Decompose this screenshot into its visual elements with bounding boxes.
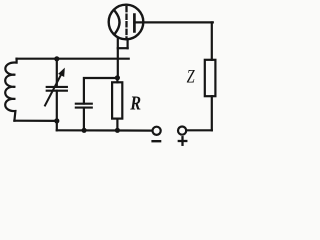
variable capacitor bottom lead down to bus bbox=[56, 91, 58, 131]
minus sign bbox=[153, 140, 161, 142]
wire: bottom bus bbox=[57, 129, 153, 132]
grid capacitor plates bbox=[76, 103, 92, 105]
variable capacitor C1: top lead bbox=[56, 59, 58, 87]
positive terminal bbox=[178, 127, 186, 135]
plus sign bbox=[179, 137, 187, 145]
impedance Z body bbox=[205, 60, 216, 96]
node: tank bottom / variable capacitor junction dot bbox=[54, 118, 59, 123]
triode tube V1 envelope bbox=[109, 5, 144, 40]
wire: grid-cathode bridge bbox=[118, 47, 128, 49]
wire: node to grid capacitor top bbox=[84, 78, 118, 104]
wire: grid capacitor bottom lead bbox=[83, 108, 85, 131]
wire: node to R top bbox=[116, 78, 118, 83]
node: tank top / variable capacitor junction dot bbox=[54, 56, 59, 61]
wire: cathode lead down from tube bbox=[117, 38, 119, 78]
variable capacitor arrow bbox=[45, 68, 65, 106]
wire: Z bottom down bbox=[211, 96, 213, 130]
variable capacitor plates bbox=[47, 86, 67, 88]
anode bar of V1 bbox=[133, 15, 136, 32]
svg-text:R: R bbox=[129, 93, 141, 115]
cathode arc of V1 bbox=[115, 12, 119, 34]
node: grid node junction dot bbox=[115, 75, 120, 80]
svg-text:Z: Z bbox=[187, 68, 196, 88]
wire: bottom right horizontal to plus terminal bbox=[186, 129, 212, 131]
wire: tank top bbox=[17, 58, 129, 60]
wire: right branch down to Z bbox=[211, 22, 213, 59]
wire: grid lead stub bbox=[126, 40, 128, 48]
resistor R body bbox=[112, 82, 122, 118]
node: capacitor bottom junction dot bbox=[82, 128, 87, 133]
grid (dashed) of V1 bbox=[125, 7, 127, 38]
wire: anode lead to the right bbox=[134, 21, 212, 23]
wire: tank bottom bbox=[14, 120, 56, 122]
node: R bottom junction dot bbox=[115, 128, 120, 133]
inductor L (4 loops) bbox=[5, 59, 16, 121]
negative terminal bbox=[153, 127, 161, 135]
wire: R bottom lead bbox=[116, 119, 118, 131]
